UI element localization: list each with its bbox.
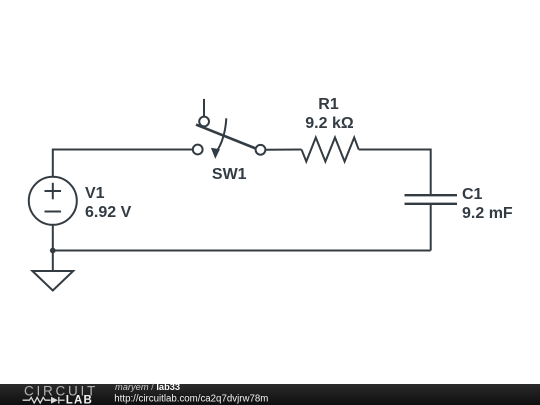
svg-text:maryem / lab33: maryem / lab33 — [115, 382, 180, 392]
footer bar — [0, 384, 540, 405]
node junction dot — [50, 248, 56, 254]
wire: V1 top to switch pole — [53, 150, 193, 177]
wire: V1 bottom to ground — [52, 225, 54, 271]
svg-text:9.2 kΩ: 9.2 kΩ — [305, 115, 354, 132]
svg-text:9.2 mF: 9.2 mF — [462, 205, 513, 222]
wire: C1 bottom to bottom net — [430, 204, 432, 251]
switch SW1 — [193, 99, 266, 159]
label R1 9.2 kOhm — [305, 96, 354, 132]
wire: R1 to C1 top — [359, 150, 431, 196]
svg-text:C1: C1 — [462, 186, 483, 203]
svg-text:http://circuitlab.com/ca2q7dvj: http://circuitlab.com/ca2q7dvjrw78m — [114, 394, 268, 405]
svg-text:R1: R1 — [318, 96, 339, 113]
voltage source V1 — [29, 177, 77, 225]
svg-text:6.92 V: 6.92 V — [85, 204, 132, 221]
resistor R1 — [302, 138, 359, 162]
wire: bottom net — [53, 250, 431, 252]
wire: switch to R1 — [265, 149, 301, 151]
CircuitLab logo resistor zigzag and diode — [23, 397, 65, 404]
svg-text:V1: V1 — [85, 185, 105, 202]
ground — [32, 271, 73, 291]
svg-text:SW1: SW1 — [212, 166, 247, 183]
label V1 6.92 V — [85, 185, 132, 221]
svg-text:LAB: LAB — [66, 395, 93, 405]
label C1 9.2 mF — [462, 186, 513, 222]
capacitor C1 — [405, 195, 458, 204]
